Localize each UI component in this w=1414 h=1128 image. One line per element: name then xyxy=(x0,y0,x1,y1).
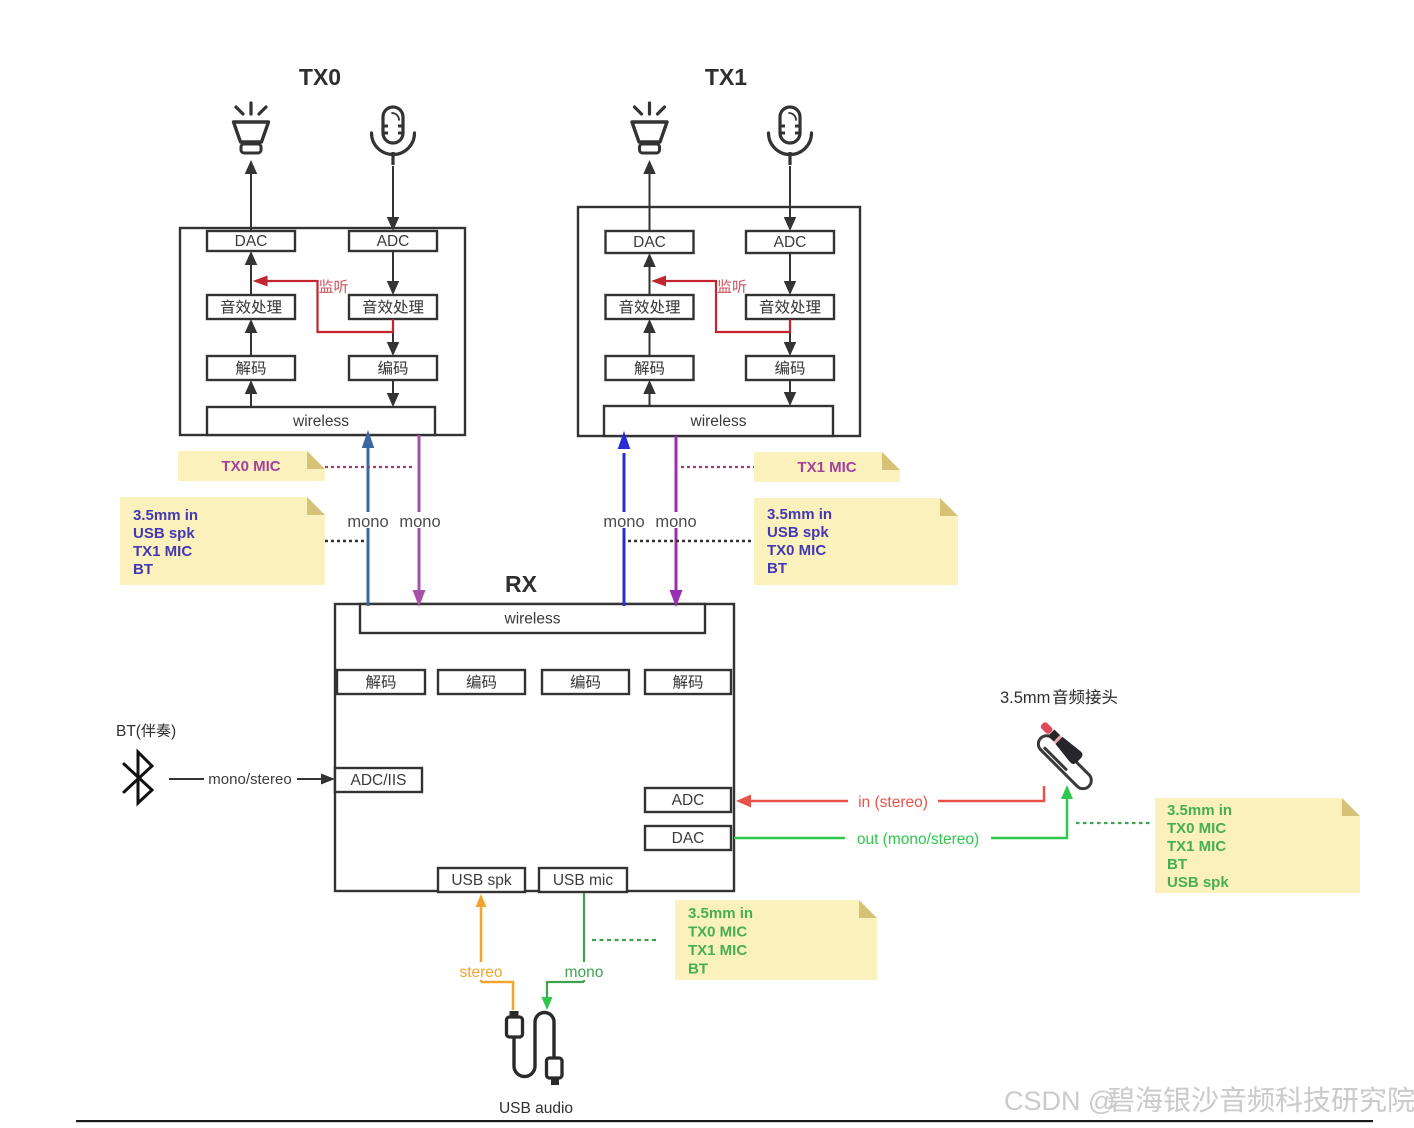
svg-text:TX1: TX1 xyxy=(705,64,747,90)
svg-text:TX0 MIC: TX0 MIC xyxy=(688,924,747,941)
svg-text:3.5mm in: 3.5mm in xyxy=(133,507,198,524)
svg-text:USB audio: USB audio xyxy=(499,1100,573,1117)
svg-text:TX0 MIC: TX0 MIC xyxy=(221,458,280,475)
svg-text:USB spk: USB spk xyxy=(451,872,512,889)
svg-text:): ) xyxy=(171,723,176,740)
svg-text:BT: BT xyxy=(767,560,787,577)
svg-text:BT(: BT( xyxy=(116,723,142,740)
svg-text:mono: mono xyxy=(655,513,696,531)
svg-text:DAC: DAC xyxy=(235,233,268,250)
svg-text:ADC: ADC xyxy=(672,792,705,809)
svg-text:USB spk: USB spk xyxy=(1167,874,1229,891)
svg-text:3.5mm: 3.5mm xyxy=(1000,689,1050,707)
svg-text:wireless: wireless xyxy=(292,413,349,430)
svg-text:ADC: ADC xyxy=(377,233,410,250)
svg-text:BT: BT xyxy=(133,561,153,578)
svg-text:BT: BT xyxy=(1167,856,1187,873)
svg-text:DAC: DAC xyxy=(633,234,666,251)
svg-text:RX: RX xyxy=(505,571,538,597)
svg-text:TX1 MIC: TX1 MIC xyxy=(688,942,747,959)
svg-text:ADC/IIS: ADC/IIS xyxy=(351,772,407,789)
svg-text:mono/stereo: mono/stereo xyxy=(208,771,291,788)
svg-text:mono: mono xyxy=(565,964,604,981)
svg-text:USB mic: USB mic xyxy=(553,872,614,889)
svg-text:USB spk: USB spk xyxy=(767,524,829,541)
svg-text:TX1 MIC: TX1 MIC xyxy=(1167,838,1226,855)
svg-text:USB spk: USB spk xyxy=(133,525,195,542)
svg-text:TX0: TX0 xyxy=(299,64,341,90)
svg-text:ADC: ADC xyxy=(774,234,807,251)
svg-text:TX0 MIC: TX0 MIC xyxy=(1167,820,1226,837)
svg-text:3.5mm in: 3.5mm in xyxy=(767,506,832,523)
svg-text:3.5mm in: 3.5mm in xyxy=(1167,802,1232,819)
svg-text:mono: mono xyxy=(603,513,644,531)
svg-text:out (mono/stereo): out (mono/stereo) xyxy=(857,831,979,848)
svg-text:TX1 MIC: TX1 MIC xyxy=(797,459,856,476)
svg-text:stereo: stereo xyxy=(459,964,502,981)
svg-text:mono: mono xyxy=(399,513,440,531)
svg-text:TX1 MIC: TX1 MIC xyxy=(133,543,192,560)
svg-text:DAC: DAC xyxy=(672,830,705,847)
svg-text:BT: BT xyxy=(688,961,708,978)
svg-text:TX0 MIC: TX0 MIC xyxy=(767,542,826,559)
svg-text:3.5mm in: 3.5mm in xyxy=(688,905,753,922)
svg-text:mono: mono xyxy=(347,513,388,531)
svg-text:wireless: wireless xyxy=(690,413,747,430)
svg-text:in (stereo): in (stereo) xyxy=(858,794,928,811)
svg-text:CSDN @: CSDN @ xyxy=(1004,1086,1115,1116)
svg-text:wireless: wireless xyxy=(504,611,561,628)
